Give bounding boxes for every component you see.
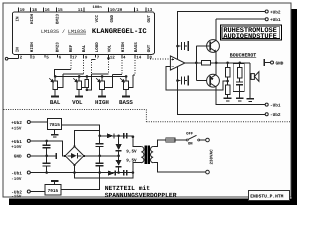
svg-text:BOUCHEROT: BOUCHEROT xyxy=(230,52,256,58)
svg-text:HIGH: HIGH xyxy=(95,99,109,106)
svg-text:-Ub2: -Ub2 xyxy=(11,189,22,195)
svg-text:BM23: BM23 xyxy=(56,42,61,53)
svg-text:-10V: -10V xyxy=(11,177,22,182)
svg-text:ENDSTU_P.HTM: ENDSTU_P.HTM xyxy=(250,194,283,200)
svg-text:-Ub2: -Ub2 xyxy=(270,112,281,118)
svg-text:BAL: BAL xyxy=(50,99,61,106)
svg-text:16: 16 xyxy=(45,8,51,13)
svg-text:100n: 100n xyxy=(93,5,103,10)
svg-text:IN: IN xyxy=(15,16,20,22)
svg-text:-Ub1: -Ub1 xyxy=(270,103,281,109)
svg-text:18: 18 xyxy=(32,8,38,13)
svg-text:KLANGREGEL-IC: KLANGREGEL-IC xyxy=(92,28,147,36)
svg-text:OFF: OFF xyxy=(186,131,194,136)
svg-text:+15V: +15V xyxy=(11,126,22,131)
svg-text:REF: REF xyxy=(69,44,74,52)
svg-text:GND: GND xyxy=(14,155,22,160)
svg-text:OUT: OUT xyxy=(147,44,152,52)
svg-text:OUT: OUT xyxy=(147,14,152,22)
svg-text:-15V: -15V xyxy=(11,195,22,200)
svg-text:AUDIOENDSTUFE: AUDIOENDSTUFE xyxy=(223,33,276,41)
svg-text:LM1035 / LM1036: LM1035 / LM1036 xyxy=(41,29,86,35)
svg-text:-Ub1: -Ub1 xyxy=(11,170,22,176)
svg-text:+Ub2: +Ub2 xyxy=(270,9,281,15)
svg-text:SPANNUNGSVERDOPPLER: SPANNUNGSVERDOPPLER xyxy=(105,192,177,199)
svg-text:VOL: VOL xyxy=(108,44,113,52)
svg-text:14: 14 xyxy=(136,55,142,60)
svg-text:19: 19 xyxy=(20,8,26,13)
svg-text:12: 12 xyxy=(110,55,116,60)
svg-text:VOL: VOL xyxy=(72,99,83,106)
svg-text:+10V: +10V xyxy=(11,145,22,150)
svg-text:7915: 7915 xyxy=(48,189,59,194)
svg-text:9,5V: 9,5V xyxy=(126,159,137,164)
svg-text:ON: ON xyxy=(188,142,193,147)
svg-text:GND: GND xyxy=(110,14,115,22)
svg-text:13: 13 xyxy=(147,8,153,13)
svg-text:BM23: BM23 xyxy=(56,13,61,24)
svg-text:LOUD: LOUD xyxy=(95,42,100,53)
svg-text:BASS: BASS xyxy=(134,42,139,53)
svg-text:GND: GND xyxy=(276,62,284,67)
svg-text:15: 15 xyxy=(58,8,64,13)
svg-text:+Ub1: +Ub1 xyxy=(270,17,281,23)
svg-text:7815: 7815 xyxy=(49,123,60,128)
svg-text:HIGH: HIGH xyxy=(121,42,126,53)
svg-text:VCC: VCC xyxy=(95,14,100,22)
svg-text:17: 17 xyxy=(72,55,78,60)
svg-text:230VAC: 230VAC xyxy=(209,149,214,165)
svg-text:HIGH: HIGH xyxy=(30,42,35,53)
svg-text:BASS: BASS xyxy=(119,99,133,106)
svg-text:IN: IN xyxy=(15,47,20,53)
svg-text:11: 11 xyxy=(78,8,84,13)
svg-text:+Ub1: +Ub1 xyxy=(11,139,22,145)
svg-text:9,5V: 9,5V xyxy=(126,149,137,154)
svg-text:HIGH: HIGH xyxy=(30,13,35,24)
svg-text:BAL: BAL xyxy=(82,44,87,52)
svg-text:+Ub2: +Ub2 xyxy=(11,120,22,126)
